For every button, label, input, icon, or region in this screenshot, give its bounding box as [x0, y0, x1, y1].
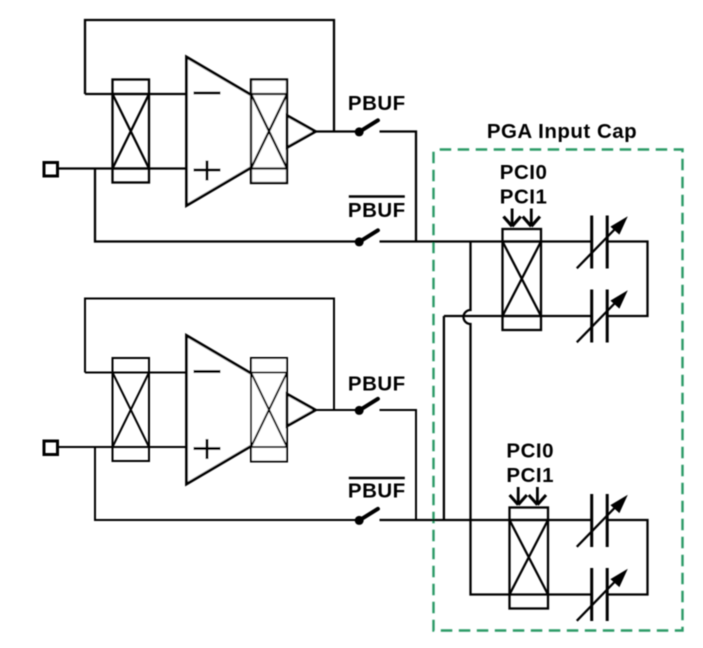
svg-text:PCI1: PCI1: [506, 464, 554, 487]
svg-text:PBUF: PBUF: [348, 199, 406, 222]
svg-text:PBUF: PBUF: [348, 92, 406, 115]
svg-text:PCI0: PCI0: [506, 440, 554, 463]
svg-text:PBUF: PBUF: [348, 372, 406, 395]
svg-text:PBUF: PBUF: [348, 480, 406, 503]
svg-text:PGA Input Cap: PGA Input Cap: [487, 120, 637, 143]
svg-text:PCI1: PCI1: [500, 186, 548, 209]
svg-text:PCI0: PCI0: [500, 161, 548, 184]
